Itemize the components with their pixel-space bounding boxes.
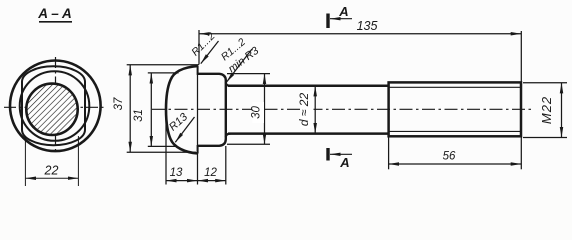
svg-text:A – A: A – A <box>37 6 72 21</box>
svg-text:30: 30 <box>250 106 262 119</box>
svg-text:22: 22 <box>44 164 59 178</box>
svg-text:d ≈ 22: d ≈ 22 <box>297 93 311 127</box>
svg-text:31: 31 <box>133 109 145 122</box>
svg-text:37: 37 <box>113 97 125 110</box>
svg-text:12: 12 <box>204 167 217 179</box>
svg-text:M22: M22 <box>539 96 554 124</box>
svg-text:A: A <box>338 4 348 19</box>
svg-text:A: A <box>339 155 349 170</box>
svg-text:13: 13 <box>170 167 183 179</box>
svg-text:56: 56 <box>443 151 456 163</box>
svg-text:R13: R13 <box>167 110 191 133</box>
svg-text:135: 135 <box>357 19 378 33</box>
